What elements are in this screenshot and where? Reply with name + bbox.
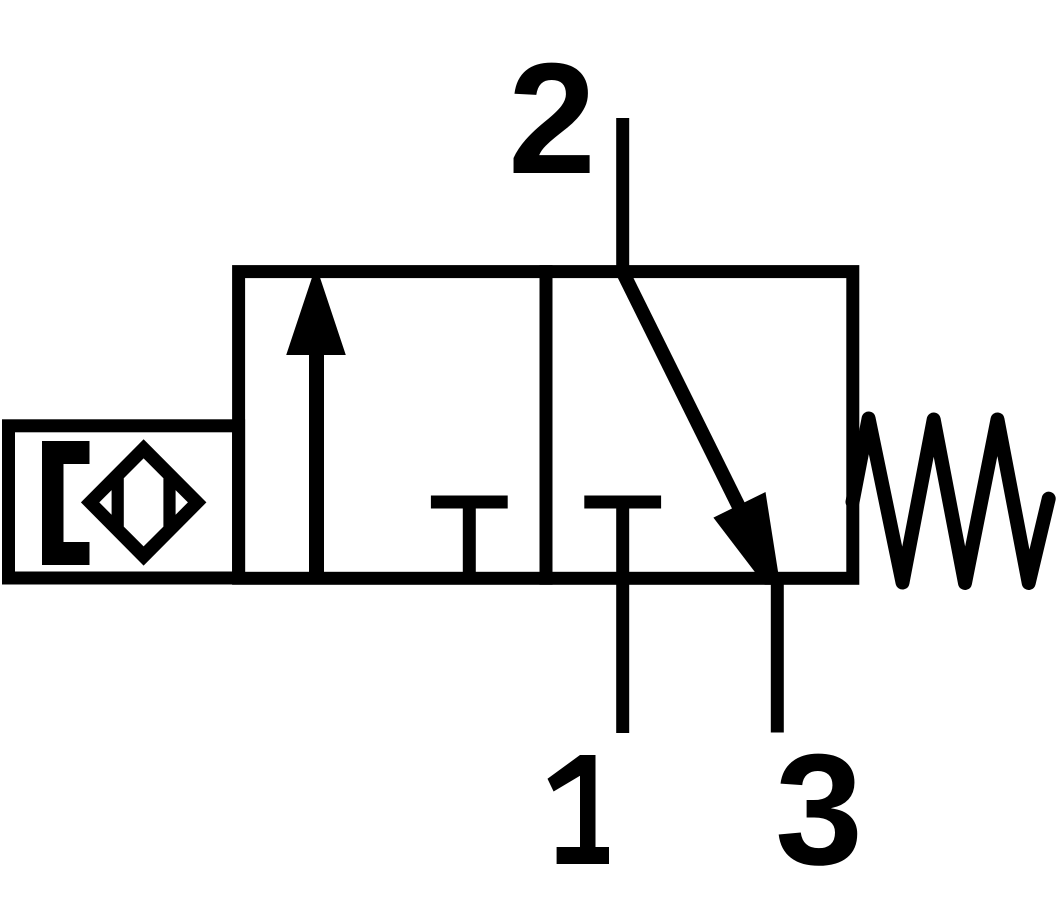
svg-text:3: 3 — [775, 722, 863, 898]
svg-text:2: 2 — [508, 31, 596, 207]
